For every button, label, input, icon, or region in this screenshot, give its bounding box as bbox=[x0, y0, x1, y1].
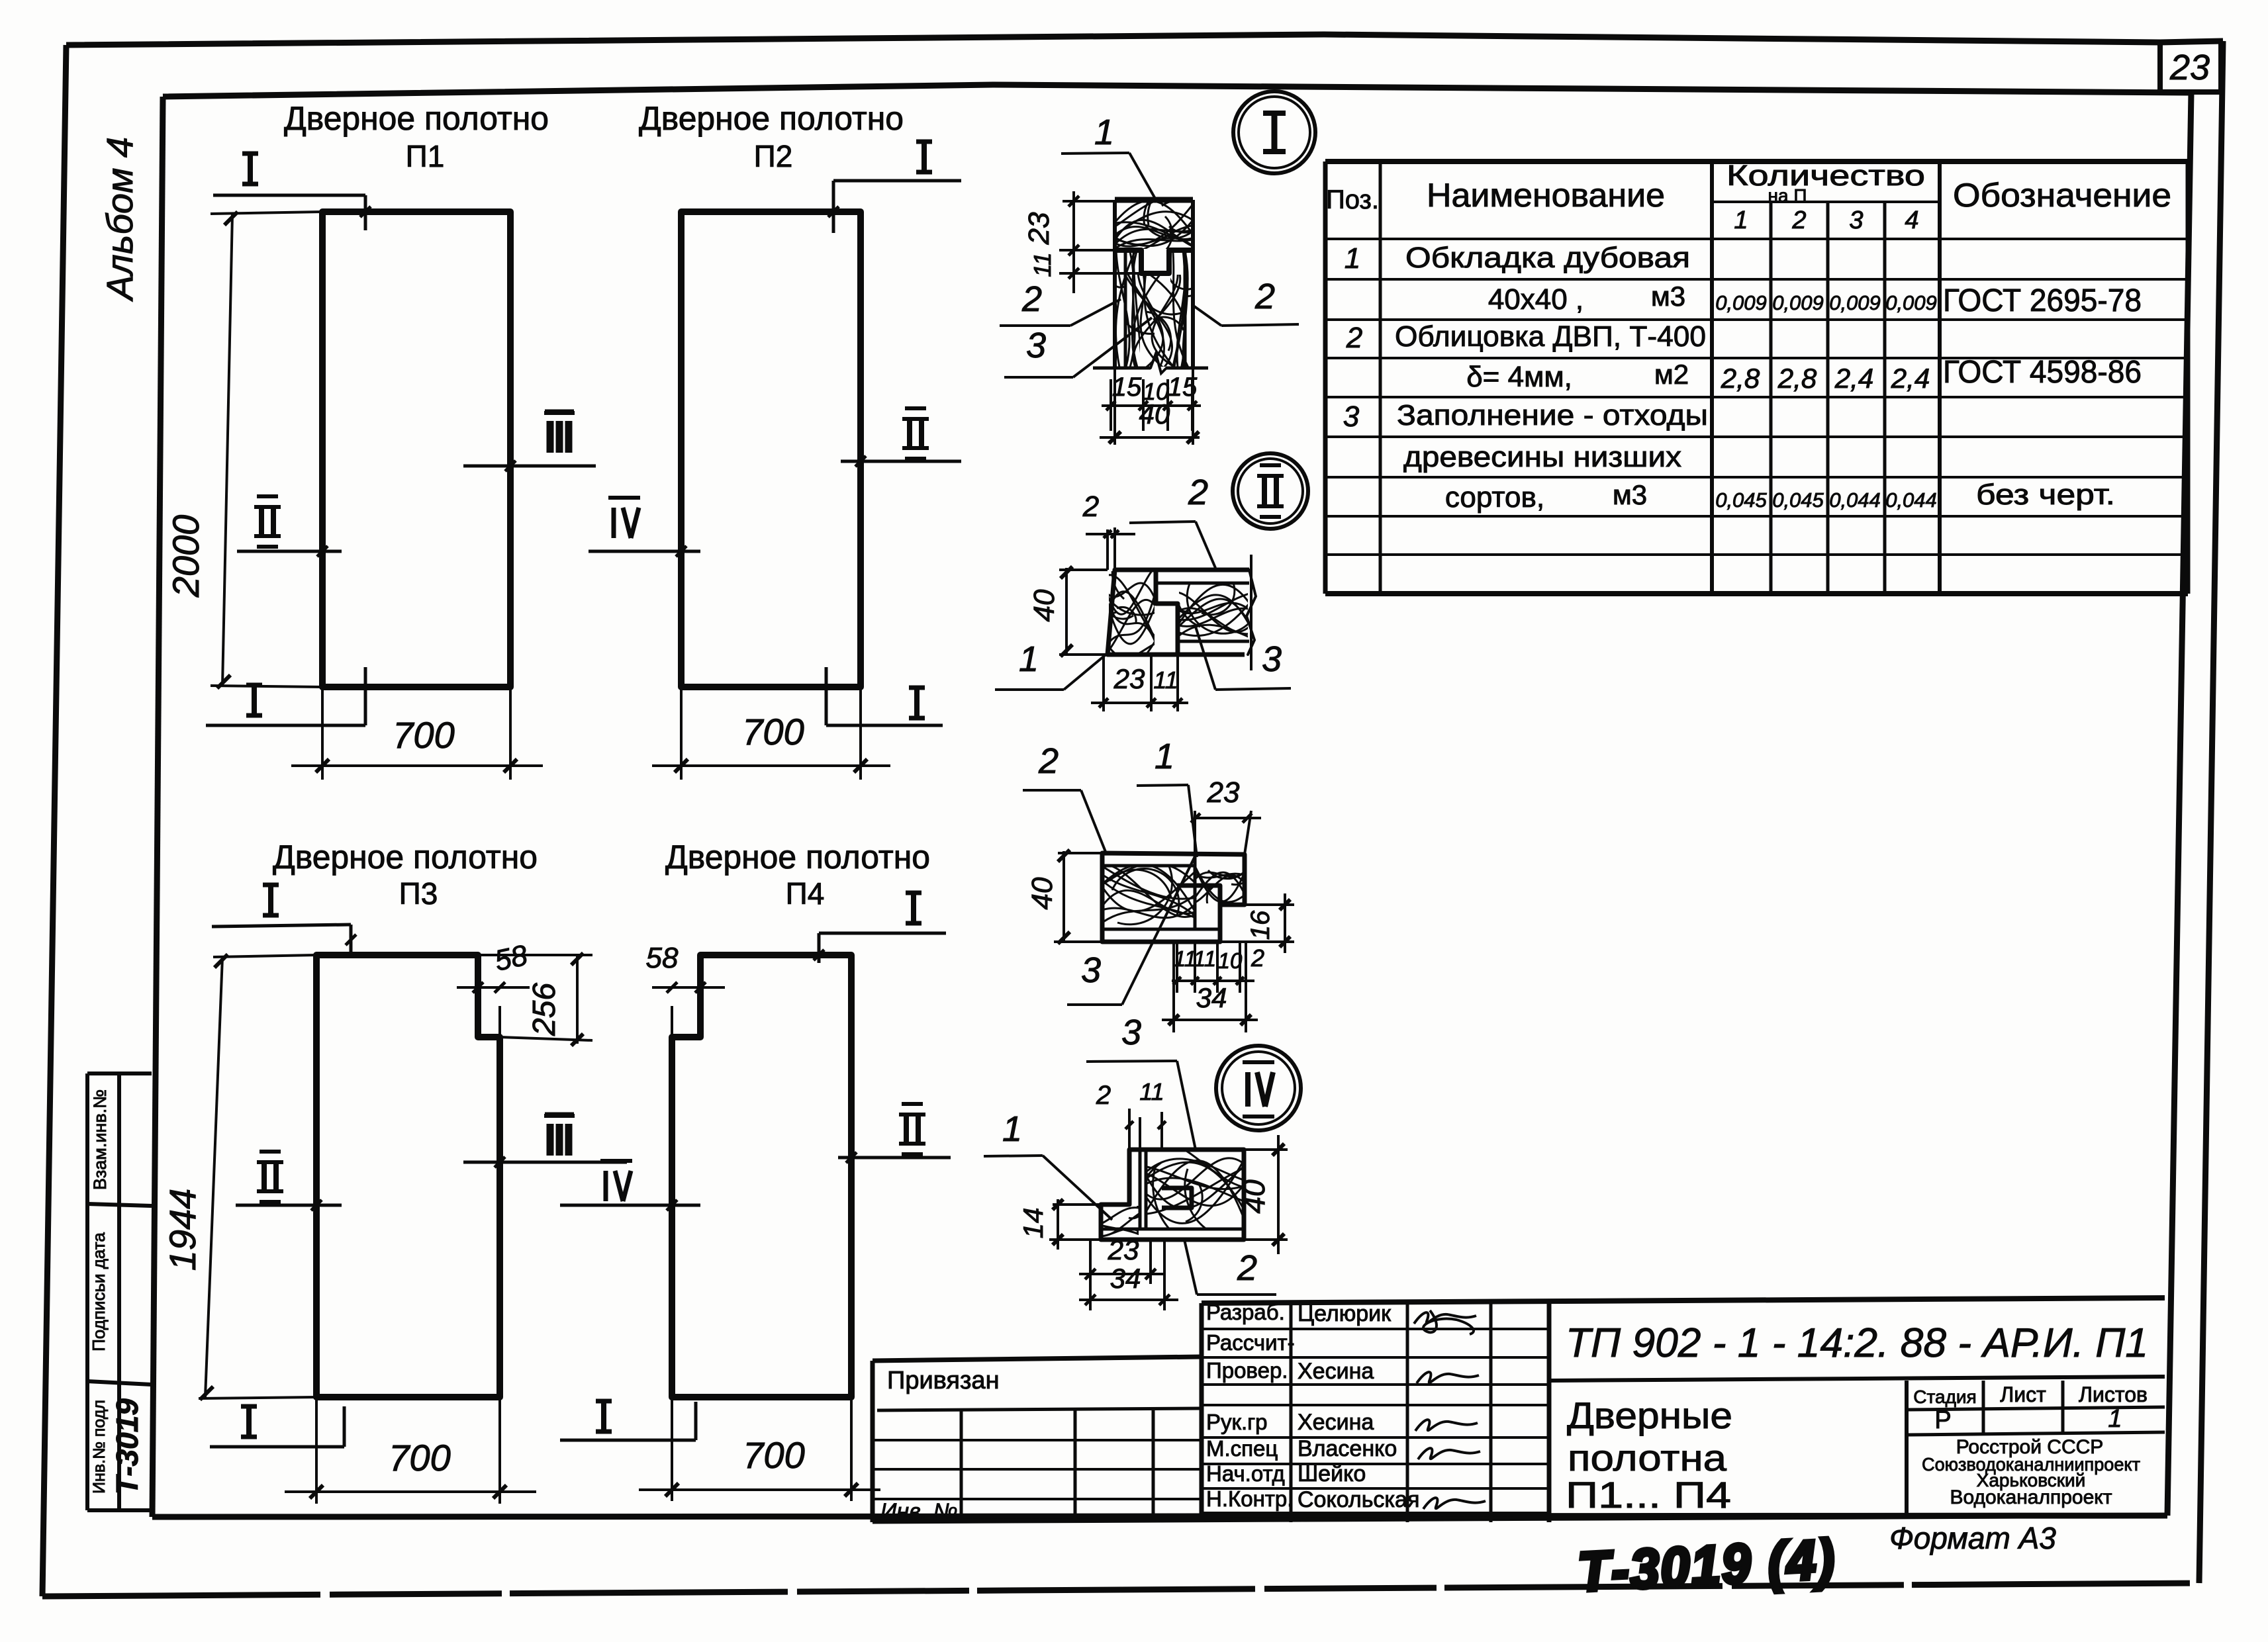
svg-text:2: 2 bbox=[1791, 206, 1806, 234]
svg-text:58: 58 bbox=[646, 942, 679, 974]
svg-text:16: 16 bbox=[1246, 910, 1275, 940]
svg-text:1944: 1944 bbox=[162, 1189, 203, 1271]
svg-text:Р: Р bbox=[1934, 1406, 1951, 1434]
svg-text:4: 4 bbox=[1905, 206, 1918, 234]
svg-text:40: 40 bbox=[1139, 398, 1170, 430]
svg-text:3: 3 bbox=[1343, 400, 1360, 433]
svg-text:1: 1 bbox=[1734, 206, 1748, 234]
svg-text:3: 3 bbox=[1081, 950, 1101, 990]
svg-text:Власенко: Власенко bbox=[1298, 1436, 1397, 1461]
svg-text:40: 40 bbox=[1028, 589, 1061, 621]
svg-text:2: 2 bbox=[1188, 473, 1208, 512]
svg-text:Целюрик: Целюрик bbox=[1298, 1301, 1392, 1326]
svg-text:0,009: 0,009 bbox=[1715, 291, 1767, 314]
svg-text:0,009: 0,009 bbox=[1829, 291, 1881, 314]
svg-text:2: 2 bbox=[1096, 1081, 1111, 1110]
svg-text:Рассчит-: Рассчит- bbox=[1206, 1330, 1295, 1355]
svg-text:2: 2 bbox=[1082, 490, 1099, 523]
svg-text:Поз.: Поз. bbox=[1326, 185, 1379, 214]
svg-text:Провер.: Провер. bbox=[1206, 1358, 1288, 1383]
svg-text:23: 23 bbox=[1207, 776, 1240, 809]
svg-text:23: 23 bbox=[2169, 48, 2210, 87]
svg-text:2: 2 bbox=[1237, 1248, 1257, 1288]
svg-text:Сокольская: Сокольская bbox=[1298, 1487, 1419, 1512]
svg-text:Стадия: Стадия bbox=[1913, 1387, 1976, 1407]
svg-text:40: 40 bbox=[1237, 1179, 1271, 1214]
svg-text:Н.Контр.: Н.Контр. bbox=[1206, 1486, 1293, 1511]
svg-text:1: 1 bbox=[1002, 1109, 1022, 1149]
svg-text:23: 23 bbox=[1113, 663, 1145, 694]
svg-text:без черт.: без черт. bbox=[1976, 479, 2115, 511]
svg-text:Формат А3: Формат А3 bbox=[1889, 1521, 2056, 1555]
svg-text:34: 34 bbox=[1196, 982, 1227, 1013]
svg-text:Разраб.: Разраб. bbox=[1206, 1300, 1285, 1324]
svg-text:10: 10 bbox=[1218, 948, 1243, 973]
svg-text:Инв.№ подл: Инв.№ подл bbox=[90, 1400, 109, 1494]
svg-text:м2: м2 bbox=[1654, 359, 1689, 390]
svg-text:Обозначение: Обозначение bbox=[1953, 177, 2171, 214]
svg-text:40х40 ,: 40х40 , bbox=[1488, 283, 1583, 316]
svg-text:14: 14 bbox=[1017, 1208, 1049, 1239]
svg-text:м3: м3 bbox=[1613, 479, 1647, 510]
svg-text:ТП 902 - 1 - 14:2. 88 - АР.И.: ТП 902 - 1 - 14:2. 88 - АР.И. П1 bbox=[1566, 1320, 2148, 1366]
svg-text:П1: П1 bbox=[406, 139, 445, 173]
svg-text:1: 1 bbox=[1155, 737, 1174, 776]
svg-text:сортов,: сортов, bbox=[1445, 481, 1544, 514]
svg-text:П4: П4 bbox=[786, 876, 825, 911]
svg-text:П3: П3 bbox=[399, 876, 438, 911]
svg-text:0,045: 0,045 bbox=[1715, 488, 1767, 512]
svg-text:700: 700 bbox=[742, 711, 804, 753]
svg-text:Подписьи дата: Подписьи дата bbox=[89, 1232, 109, 1351]
svg-text:2,4: 2,4 bbox=[1891, 363, 1930, 394]
svg-text:2,4: 2,4 bbox=[1834, 363, 1873, 394]
svg-text:П2: П2 bbox=[754, 139, 793, 173]
svg-text:11: 11 bbox=[1029, 252, 1056, 277]
svg-text:Альбом 4: Альбом 4 bbox=[99, 137, 140, 302]
svg-text:Т-3019: Т-3019 bbox=[110, 1398, 144, 1495]
svg-text:Листов: Листов bbox=[2079, 1383, 2148, 1406]
svg-text:Водоканалпроект: Водоканалпроект bbox=[1950, 1486, 2112, 1508]
svg-text:Нач.отд: Нач.отд bbox=[1206, 1461, 1285, 1486]
svg-text:0,044: 0,044 bbox=[1885, 488, 1937, 512]
svg-text:Заполнение - отходы: Заполнение - отходы bbox=[1397, 399, 1708, 432]
svg-text:м3: м3 bbox=[1651, 281, 1685, 312]
svg-text:2: 2 bbox=[1251, 944, 1264, 972]
svg-text:700: 700 bbox=[393, 714, 454, 756]
svg-text:Шейко: Шейко bbox=[1298, 1461, 1366, 1486]
svg-text:ГОСТ 2695-78: ГОСТ 2695-78 bbox=[1943, 283, 2142, 318]
svg-text:2,8: 2,8 bbox=[1777, 363, 1817, 394]
svg-text:3: 3 bbox=[1849, 206, 1863, 234]
svg-text:2: 2 bbox=[1021, 279, 1042, 319]
svg-text:1: 1 bbox=[1345, 242, 1360, 275]
svg-text:Хесина: Хесина bbox=[1298, 1410, 1374, 1435]
svg-text:2,8: 2,8 bbox=[1721, 363, 1760, 394]
svg-text:2: 2 bbox=[1254, 277, 1275, 316]
svg-text:Обкладка дубовая: Обкладка дубовая bbox=[1405, 242, 1690, 274]
svg-text:0,045: 0,045 bbox=[1772, 488, 1824, 512]
svg-text:1: 1 bbox=[1019, 639, 1039, 679]
svg-text:256: 256 bbox=[527, 983, 562, 1036]
svg-text:Рук.гр: Рук.гр bbox=[1206, 1410, 1268, 1434]
svg-text:1: 1 bbox=[2108, 1405, 2122, 1433]
svg-text:23: 23 bbox=[1023, 212, 1055, 245]
svg-text:δ= 4мм,: δ= 4мм, bbox=[1466, 361, 1572, 393]
svg-text:Дверное полотно: Дверное полотно bbox=[284, 100, 549, 137]
svg-text:Привязан: Привязан bbox=[887, 1367, 1000, 1394]
svg-text:2: 2 bbox=[1346, 322, 1362, 354]
svg-text:Дверное полотно: Дверное полотно bbox=[665, 839, 930, 876]
svg-text:11: 11 bbox=[1139, 1078, 1164, 1105]
svg-text:М.спец: М.спец bbox=[1206, 1436, 1278, 1461]
svg-text:Дверные: Дверные bbox=[1567, 1394, 1732, 1436]
svg-text:Облицовка ДВП, Т-400: Облицовка ДВП, Т-400 bbox=[1395, 320, 1706, 353]
svg-text:Инв. №: Инв. № bbox=[880, 1499, 958, 1524]
svg-text:11: 11 bbox=[1153, 666, 1178, 694]
svg-text:Хесина: Хесина bbox=[1298, 1359, 1374, 1384]
svg-text:ГОСТ 4598-86: ГОСТ 4598-86 bbox=[1943, 355, 2142, 390]
svg-text:11: 11 bbox=[1194, 946, 1216, 971]
svg-text:полотна: полотна bbox=[1568, 1437, 1727, 1479]
svg-text:700: 700 bbox=[743, 1434, 804, 1476]
svg-text:1: 1 bbox=[1094, 113, 1114, 152]
svg-text:15: 15 bbox=[1112, 373, 1142, 402]
svg-text:34: 34 bbox=[1110, 1263, 1141, 1294]
svg-text:700: 700 bbox=[389, 1437, 450, 1479]
svg-text:Дверное полотно: Дверное полотно bbox=[273, 839, 538, 876]
svg-text:0,009: 0,009 bbox=[1772, 291, 1824, 314]
svg-text:Дверное полотно: Дверное полотно bbox=[639, 100, 904, 137]
svg-text:40: 40 bbox=[1026, 877, 1059, 909]
svg-text:П1... П4: П1... П4 bbox=[1566, 1474, 1731, 1516]
svg-text:3: 3 bbox=[1026, 326, 1046, 365]
svg-text:Взам.инв.№: Взам.инв.№ bbox=[90, 1089, 110, 1190]
svg-text:3: 3 bbox=[1121, 1013, 1141, 1052]
svg-text:3: 3 bbox=[1262, 639, 1282, 679]
svg-text:23: 23 bbox=[1108, 1234, 1139, 1265]
svg-text:Лист: Лист bbox=[2000, 1383, 2046, 1406]
svg-text:Наименование: Наименование bbox=[1427, 177, 1665, 214]
svg-text:2: 2 bbox=[1038, 741, 1059, 781]
svg-text:Количество: Количество bbox=[1726, 160, 1925, 192]
svg-text:древесины низших: древесины низших bbox=[1403, 441, 1681, 473]
svg-text:0,044: 0,044 bbox=[1829, 488, 1881, 512]
svg-text:на П: на П bbox=[1768, 185, 1807, 206]
svg-text:2000: 2000 bbox=[165, 515, 207, 598]
svg-text:0,009: 0,009 bbox=[1885, 291, 1937, 314]
